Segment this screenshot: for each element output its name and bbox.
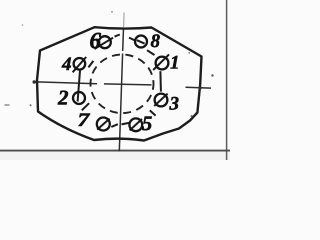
hole 1 [156,57,169,70]
hole 7 [97,118,110,131]
paper background [0,0,230,160]
right page border [226,0,228,160]
bolt circle dash between 3 and 5 [150,110,156,115]
bolt circle dash through hole 6 [94,38,113,49]
bolt circle dash between 8 and 1 [147,50,155,55]
bolt circle dash right of centerline bottom [122,123,130,125]
label 4 [62,57,71,70]
label 1 [170,56,177,69]
octagon plate outline [37,27,202,140]
bolt circle dash between 2 and 7 [82,103,89,110]
vertical centerline main segment [119,54,122,152]
vertical centerline upper segment [122,28,125,52]
bolt circle dash inside hole 8 [137,40,145,43]
bolt circle dash left of hole 8 [129,38,135,41]
speckle dots [211,74,213,76]
bolt circle dash through hole 5 [130,119,142,130]
bottom frame line [0,150,230,152]
horizontal centerline left segment [33,82,97,84]
hole 8 [135,36,147,48]
horizontal centerline middle segment [104,84,152,85]
bolt circle dash through hole 1 [153,54,169,70]
label 7 [78,114,90,126]
bolt circle long dash between 4 and 2 [78,71,80,102]
label 5 [142,117,151,131]
label 8 [151,34,160,47]
bolt circle long dash between 1 and 3 [159,71,162,91]
bolt circle dash through hole 7 [97,119,109,130]
hole 4 [74,58,86,70]
hole 5 [129,118,142,131]
horizontal centerline right segment [186,86,212,89]
hole 3 [155,94,168,107]
bolt circle dash through hole 3 [154,94,167,106]
bolt circle dash left of centerline bottom [111,124,118,127]
centerline blob at right edge crossing [198,86,201,89]
hole 2 [73,92,85,104]
centerline start blob [33,80,36,83]
bolt circle dash top left of centerline [115,35,120,37]
hole 6 [99,36,111,48]
bolt circle dash between 4 and 6 [88,61,93,68]
label 2 [58,91,68,105]
label 3 [169,97,178,110]
vertical centerline faint upper tail [123,13,125,28]
bolt circle dash through hole 4 [73,57,87,72]
label 6 [90,33,101,48]
inner dashed circle (bore) [91,55,154,114]
